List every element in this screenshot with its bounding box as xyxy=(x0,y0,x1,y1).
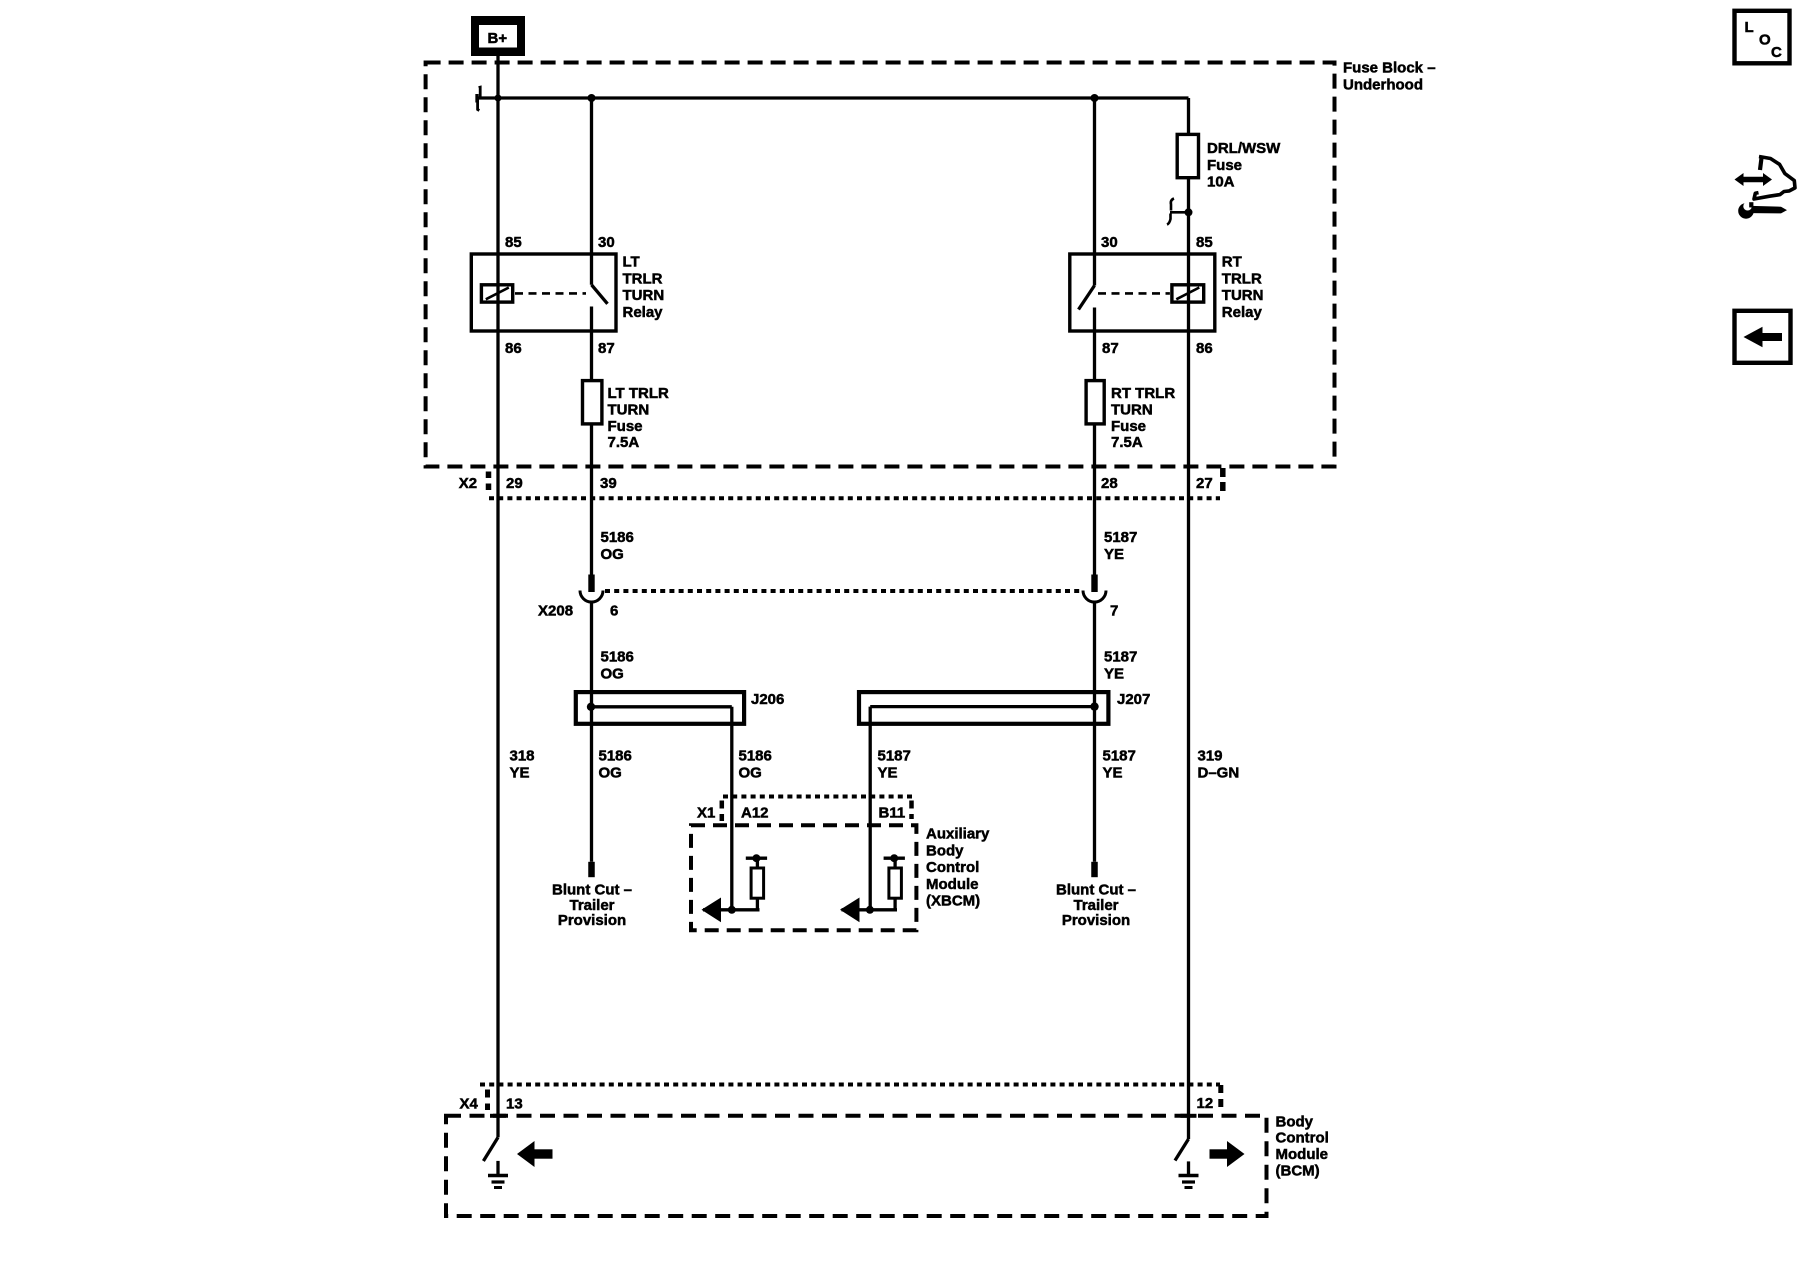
svg-text:B+: B+ xyxy=(488,30,508,47)
svg-text:13: 13 xyxy=(506,1096,523,1113)
resistor in XBCM (right) xyxy=(884,854,905,898)
relay LT switch lever and contact xyxy=(592,285,608,381)
svg-text:X1: X1 xyxy=(697,805,715,822)
X2 pin labels xyxy=(506,475,1213,492)
connector X2 row xyxy=(459,468,1223,498)
svg-text:TRLR: TRLR xyxy=(1222,270,1262,287)
svg-text:87: 87 xyxy=(598,340,615,357)
svg-text:OG: OG xyxy=(739,764,762,781)
connector X1 row xyxy=(697,797,914,822)
svg-text:Relay: Relay xyxy=(1222,304,1263,321)
blunt cut terminal (right) xyxy=(1091,862,1098,877)
svg-text:30: 30 xyxy=(598,234,615,251)
svg-text:OG: OG xyxy=(601,546,624,563)
XBCM name label xyxy=(926,826,990,910)
node: bus to RT relay pin 30 xyxy=(1091,94,1099,102)
X208 labels xyxy=(538,603,1118,620)
fuse LT TRLR TURN 7.5A xyxy=(583,381,670,452)
svg-text:10A: 10A xyxy=(1207,174,1235,191)
svg-text:Fuse: Fuse xyxy=(608,418,643,435)
wire LT fuse down to X208 pin 6 xyxy=(590,424,593,575)
XBCM left branch: arrow, junction, resistor xyxy=(702,898,760,923)
svg-text:RT: RT xyxy=(1222,254,1242,271)
relay LT name label xyxy=(623,254,665,321)
svg-text:85: 85 xyxy=(505,234,522,251)
svg-text:B11: B11 xyxy=(879,805,906,822)
wire X208-7 down to J207 xyxy=(1093,602,1096,862)
svg-text:7.5A: 7.5A xyxy=(608,434,640,451)
svg-text:X2: X2 xyxy=(459,475,477,492)
svg-text:Underhood: Underhood xyxy=(1343,76,1423,93)
wire label 5186 OG (lower) xyxy=(601,649,634,683)
svg-text:LT TRLR: LT TRLR xyxy=(608,385,670,402)
fuse block underhood dashed box xyxy=(426,63,1335,467)
svg-text:Auxiliary: Auxiliary xyxy=(926,826,990,843)
svg-text:5187: 5187 xyxy=(1103,748,1136,765)
icon back arrow box (right side) xyxy=(1735,311,1791,363)
wire J206 to XBCM A12 xyxy=(730,707,733,910)
splice J207 xyxy=(859,691,1150,724)
wire J207 to XBCM B11 xyxy=(869,707,872,910)
connector X208 pin 6 terminals xyxy=(580,575,603,603)
wire label 5187 YE (upper) xyxy=(1104,529,1137,563)
svg-text:6: 6 xyxy=(610,603,618,620)
svg-text:5187: 5187 xyxy=(1104,529,1137,546)
wire RT fuse down to X208 pin 7 xyxy=(1093,424,1096,575)
svg-text:12: 12 xyxy=(1197,1095,1214,1112)
splice J206 xyxy=(576,691,785,724)
BCM left switch xyxy=(483,1137,498,1161)
relay LT coil xyxy=(481,285,512,302)
svg-text:YE: YE xyxy=(510,764,530,781)
svg-text:TRLR: TRLR xyxy=(623,270,663,287)
svg-text:5186: 5186 xyxy=(739,748,772,765)
svg-text:318: 318 xyxy=(510,748,535,765)
X1 pin labels A12 B11 xyxy=(741,805,905,822)
XBCM dashed box xyxy=(691,825,916,930)
wire label 5186 OG (left of J206 output) xyxy=(599,748,632,782)
relay LT TRLR TURN: box xyxy=(471,254,616,331)
svg-text:Body: Body xyxy=(926,842,964,859)
svg-text:39: 39 xyxy=(600,475,617,492)
relay RT switch lever and contact xyxy=(1079,286,1095,381)
svg-text:(BCM): (BCM) xyxy=(1276,1163,1320,1180)
svg-text:7.5A: 7.5A xyxy=(1111,434,1143,451)
relay RT pin labels xyxy=(1101,234,1213,357)
svg-text:DRL/WSW: DRL/WSW xyxy=(1207,140,1281,157)
svg-text:YE: YE xyxy=(878,764,898,781)
svg-text:TURN: TURN xyxy=(1111,401,1153,418)
svg-text:Relay: Relay xyxy=(623,304,664,321)
svg-text:Provision: Provision xyxy=(1062,912,1130,929)
svg-text:L: L xyxy=(1745,19,1754,36)
svg-text:YE: YE xyxy=(1104,546,1124,563)
wire bus down to RT relay pin 30 xyxy=(1093,98,1096,286)
svg-text:J207: J207 xyxy=(1117,691,1150,708)
wire label 5186 OG (upper) xyxy=(601,529,634,563)
fuse DRL/WSW 10A xyxy=(1177,134,1281,190)
svg-text:TURN: TURN xyxy=(608,401,650,418)
relay RT coil xyxy=(1172,285,1204,302)
label Blunt Cut Trailer Provision (left) xyxy=(552,882,632,930)
svg-text:YE: YE xyxy=(1104,665,1124,682)
connector X4 row xyxy=(460,1085,1221,1113)
relay LT pin labels xyxy=(505,234,615,357)
BCM dashed box xyxy=(446,1116,1267,1216)
node: bus to LT relay pin 30 xyxy=(588,94,596,102)
svg-text:Fuse Block –: Fuse Block – xyxy=(1343,60,1436,77)
connector X208 dotted line xyxy=(605,589,1082,593)
svg-text:5186: 5186 xyxy=(601,529,634,546)
svg-text:Fuse: Fuse xyxy=(1207,157,1242,174)
svg-text:OG: OG xyxy=(599,764,622,781)
wire label 5186 OG (A12 branch) xyxy=(739,748,772,782)
svg-text:Control: Control xyxy=(926,859,979,876)
label Fuse Block - Underhood xyxy=(1343,60,1436,94)
svg-text:D–GN: D–GN xyxy=(1198,764,1240,781)
relay LT actuation dashed link xyxy=(515,292,586,295)
svg-text:27: 27 xyxy=(1196,475,1213,492)
svg-text:5187: 5187 xyxy=(878,748,911,765)
svg-text:85: 85 xyxy=(1196,234,1213,251)
wire bus down to LT relay pin 30 xyxy=(590,98,593,285)
svg-text:Fuse: Fuse xyxy=(1111,418,1146,435)
svg-text:YE: YE xyxy=(1103,764,1123,781)
wire label 318 YE xyxy=(510,748,535,782)
svg-text:30: 30 xyxy=(1101,234,1118,251)
svg-text:Control: Control xyxy=(1276,1130,1329,1147)
arrow out (BCM right) xyxy=(1210,1141,1245,1167)
arrow out (BCM left) xyxy=(517,1141,553,1167)
B+ power symbol xyxy=(471,16,525,56)
svg-text:J206: J206 xyxy=(751,691,784,708)
relay RT name label xyxy=(1222,254,1264,321)
svg-text:Module: Module xyxy=(926,876,979,893)
svg-text:7: 7 xyxy=(1110,603,1118,620)
resistor in XBCM (left) xyxy=(746,854,767,898)
ground (BCM right) xyxy=(1179,1161,1199,1187)
wire X208-6 down to J206 xyxy=(590,602,593,862)
svg-text:319: 319 xyxy=(1198,748,1223,765)
wire label 5187 YE (lower) xyxy=(1104,649,1137,683)
svg-text:Provision: Provision xyxy=(558,912,626,929)
svg-text:(XBCM): (XBCM) xyxy=(926,893,980,910)
wire label 319 D-GN xyxy=(1198,748,1240,782)
svg-text:X4: X4 xyxy=(460,1096,479,1113)
relay RT TRLR TURN: box xyxy=(1070,254,1215,331)
BCM name label xyxy=(1276,1113,1329,1179)
icon LOC box (top right) xyxy=(1735,11,1790,64)
svg-text:A12: A12 xyxy=(741,805,769,822)
svg-text:TURN: TURN xyxy=(1222,287,1264,304)
wire label 5187 YE (right of J207 output) xyxy=(1103,748,1136,782)
blunt cut terminal (left) xyxy=(588,862,595,877)
ground (BCM left) xyxy=(488,1161,508,1188)
svg-text:87: 87 xyxy=(1102,340,1119,357)
svg-text:86: 86 xyxy=(1196,340,1213,357)
svg-text:86: 86 xyxy=(505,340,522,357)
svg-text:Module: Module xyxy=(1276,1146,1329,1163)
fuse RT TRLR TURN 7.5A xyxy=(1086,381,1175,452)
wire from B+ down (left long wire, circuit 318 YE) xyxy=(496,56,499,1137)
svg-text:5187: 5187 xyxy=(1104,649,1137,666)
svg-text:LT: LT xyxy=(623,254,640,271)
svg-text:C: C xyxy=(1771,44,1782,61)
svg-text:RT TRLR: RT TRLR xyxy=(1111,385,1175,402)
svg-text:28: 28 xyxy=(1101,475,1118,492)
BCM right switch xyxy=(1175,1139,1189,1161)
svg-text:29: 29 xyxy=(506,475,523,492)
svg-text:5186: 5186 xyxy=(599,748,632,765)
connector X208 pin 7 terminals xyxy=(1083,575,1106,603)
XBCM right branch: arrow, junction, resistor xyxy=(840,898,897,923)
svg-text:5186: 5186 xyxy=(601,649,634,666)
in-line connector hook below DRL fuse xyxy=(1167,199,1193,225)
X4 pin labels 13 12 xyxy=(506,1095,1213,1113)
icon hand with double arrow and wrench (right side) xyxy=(1735,156,1796,219)
wire label 5187 YE (B11 branch) xyxy=(878,748,911,782)
wire 319 D-GN: DRL fuse down to BCM xyxy=(1187,98,1190,1139)
svg-text:X208: X208 xyxy=(538,603,573,620)
svg-text:Body: Body xyxy=(1276,1113,1314,1130)
svg-text:O: O xyxy=(1759,32,1771,49)
connector hook at left end of bus xyxy=(477,87,480,110)
svg-text:OG: OG xyxy=(601,665,624,682)
label Blunt Cut Trailer Provision (right) xyxy=(1056,882,1136,930)
relay RT actuation dashed link xyxy=(1098,292,1170,295)
wire: B+ feed bus horizontal xyxy=(477,96,1189,99)
junction of B+ wire and bus xyxy=(495,95,502,102)
svg-text:TURN: TURN xyxy=(623,287,665,304)
